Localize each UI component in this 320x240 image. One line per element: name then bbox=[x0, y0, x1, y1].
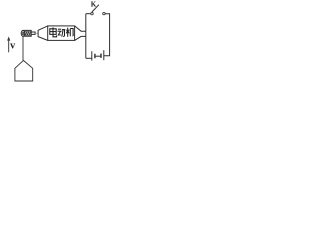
svg-text:v: v bbox=[10, 41, 15, 52]
svg-text:K: K bbox=[91, 0, 97, 8]
